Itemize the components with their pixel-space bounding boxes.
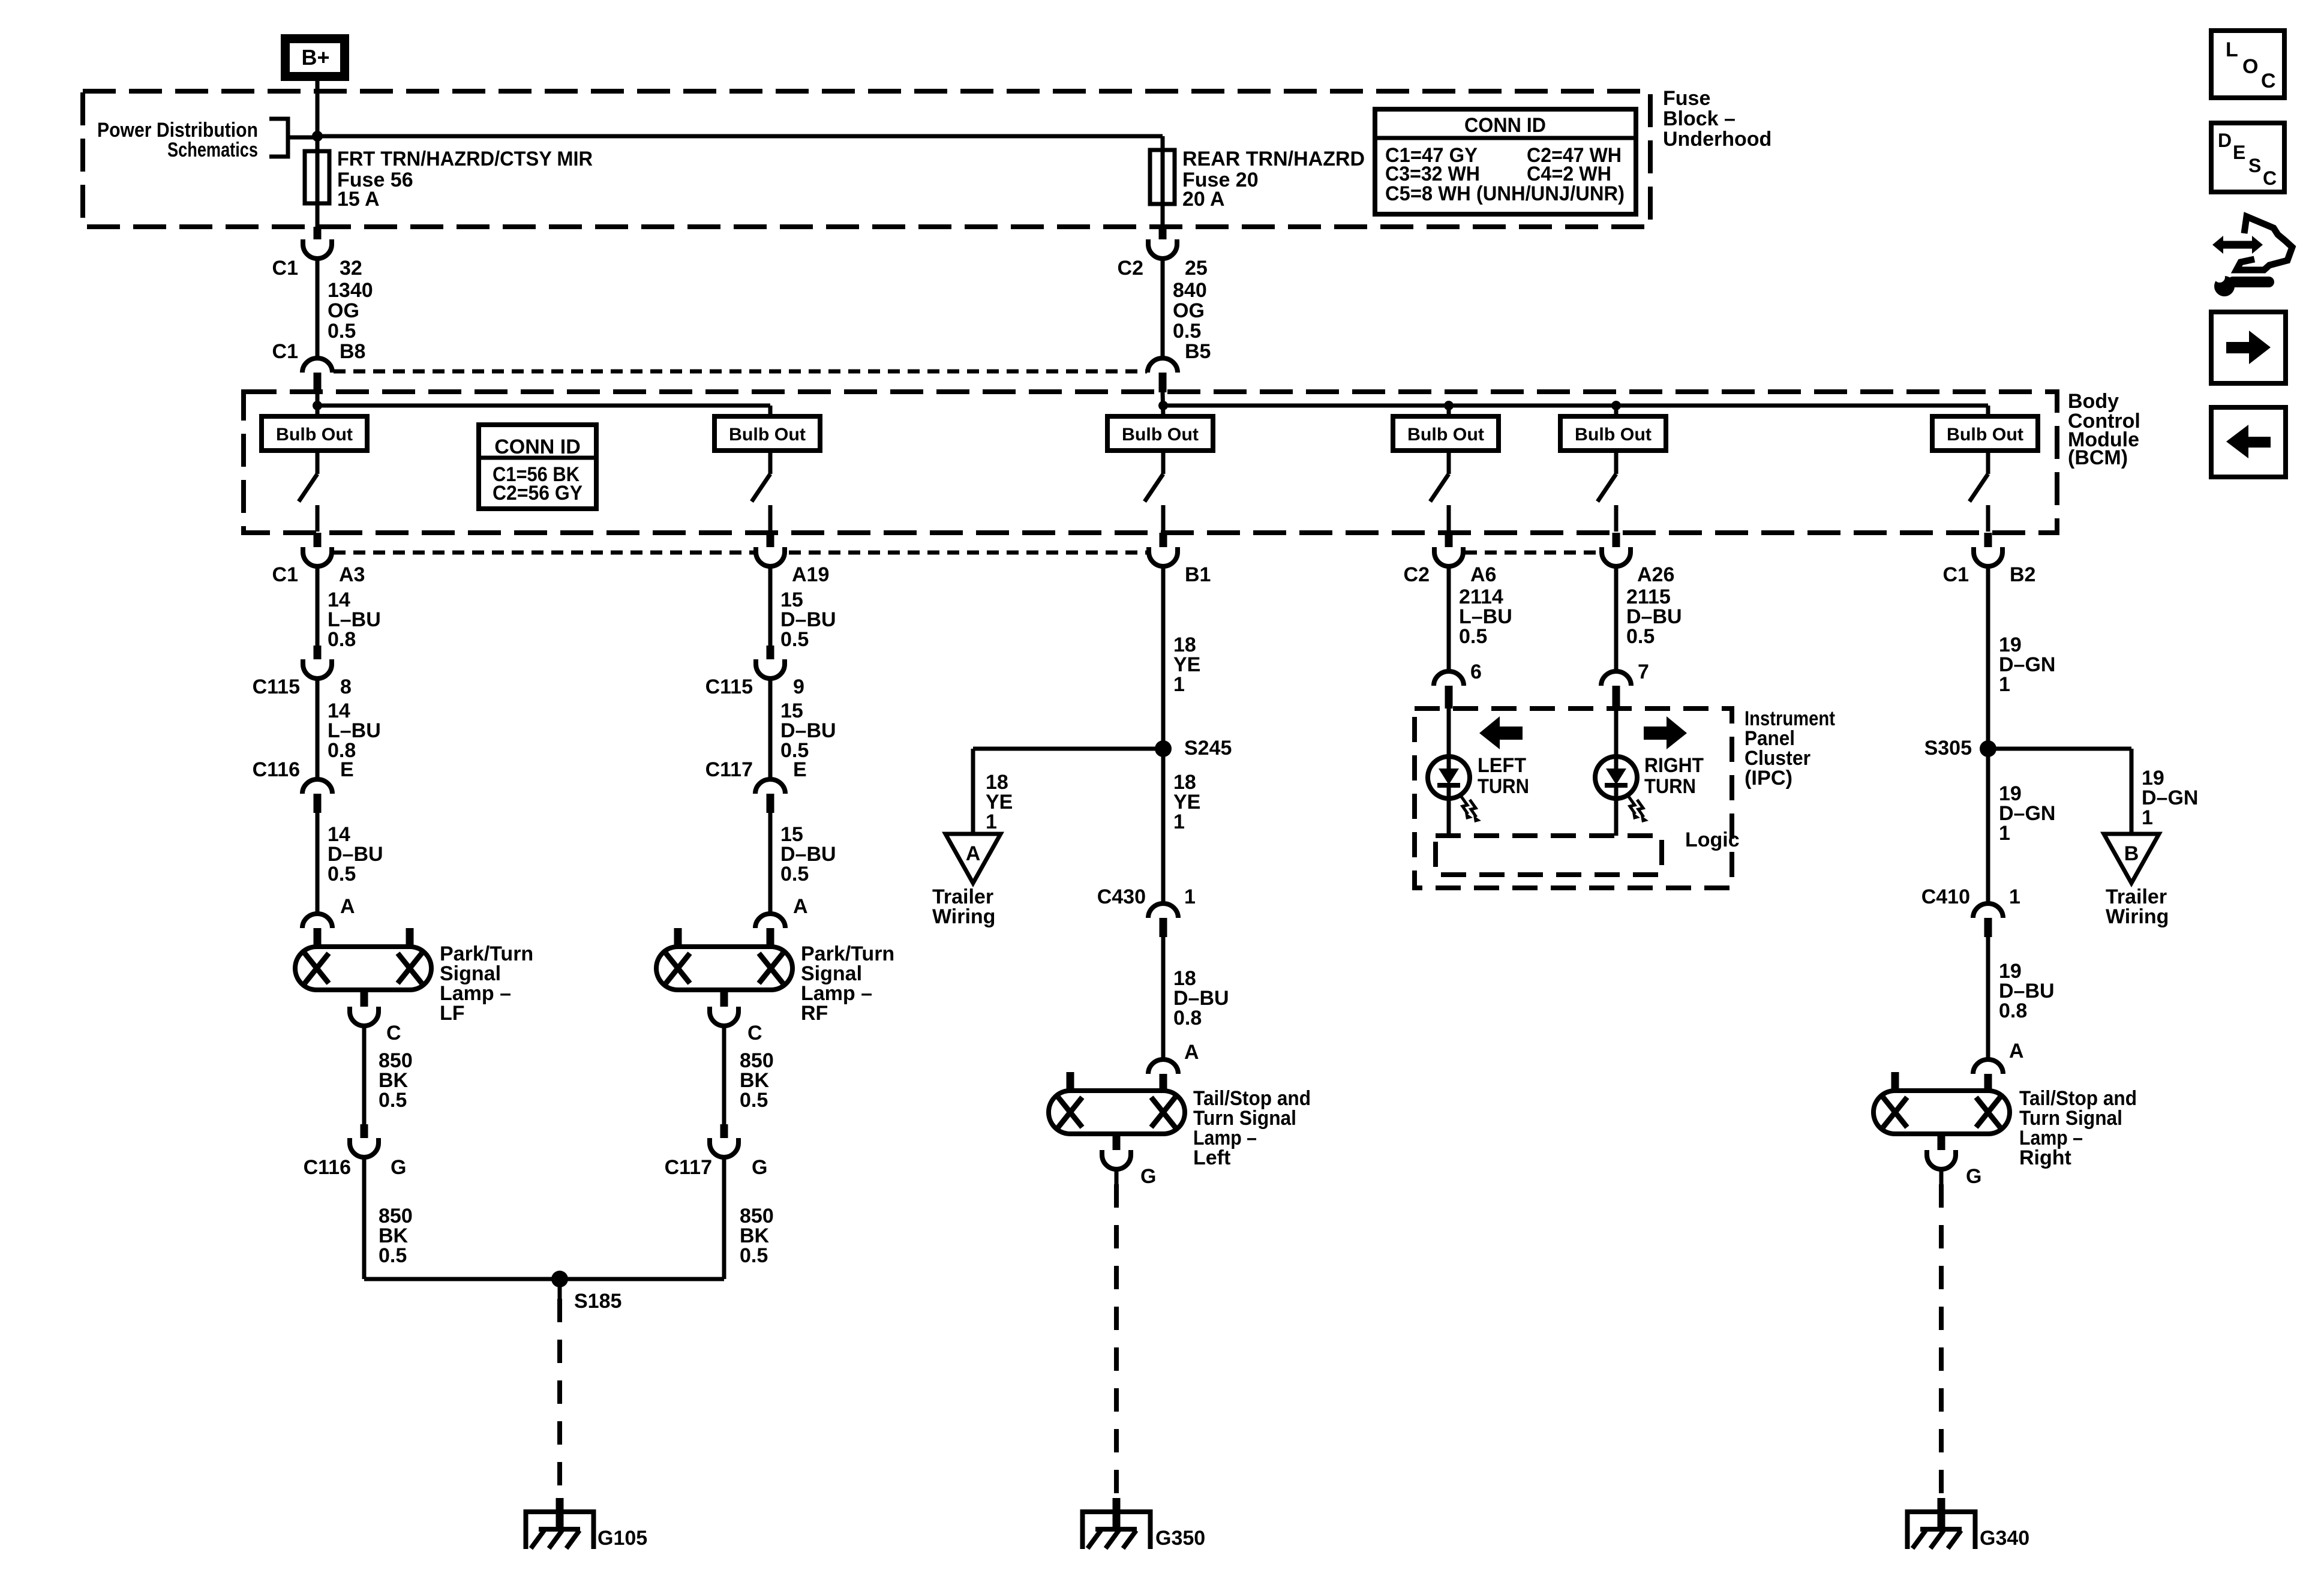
lamp: Tail/Stop and Turn Signal Lamp - Right xyxy=(1873,1091,2010,1134)
svg-text:O: O xyxy=(2242,55,2258,78)
wire: BCM bus segment right xyxy=(1163,392,1163,416)
switch: bulb out switch col5 xyxy=(1614,451,1619,474)
wire: RF lamp to C117-G xyxy=(722,1026,726,1124)
svg-text:C: C xyxy=(2263,167,2277,189)
svg-text:Schematics: Schematics xyxy=(167,139,258,161)
svg-text:E: E xyxy=(340,758,354,781)
svg-text:C1: C1 xyxy=(1943,563,1969,586)
svg-text:G: G xyxy=(1966,1165,1981,1188)
dotted connector face line (BCM outputs C2) xyxy=(1465,551,1600,555)
svg-text:B: B xyxy=(2124,842,2139,865)
svg-text:9: 9 xyxy=(793,676,804,698)
connector IPC pin 6 xyxy=(1434,671,1464,686)
icon: next-page right arrow box xyxy=(2211,312,2286,383)
node: splice S305 xyxy=(1980,740,1996,757)
stub: BCM boundary col1 xyxy=(314,533,322,552)
svg-text:(IPC): (IPC) xyxy=(1744,767,1792,789)
BCM Bulb Out driver box col2 xyxy=(714,416,820,451)
wire: B+ bus to Fuse 20 xyxy=(317,134,1163,139)
svg-text:A: A xyxy=(1184,1041,1199,1064)
svg-text:1: 1 xyxy=(1999,673,2010,696)
wire: tail left to G350 (dashed) xyxy=(1115,1169,1119,1184)
node: bus junction col1 xyxy=(313,401,322,410)
connector C116 pin G xyxy=(361,1124,368,1143)
svg-text:Wiring: Wiring xyxy=(2106,905,2169,928)
svg-text:B1: B1 xyxy=(1185,563,1211,586)
svg-text:Bulb Out: Bulb Out xyxy=(276,425,353,445)
connector BCM C1 pin B8 xyxy=(302,358,332,373)
svg-text:G: G xyxy=(752,1156,767,1179)
svg-text:C410: C410 xyxy=(1921,885,1970,908)
power feed node B+ box xyxy=(286,39,345,77)
connector BCM output col5 xyxy=(1602,547,1631,566)
svg-text:LEFT: LEFT xyxy=(1478,754,1526,777)
svg-text:0.5: 0.5 xyxy=(379,1089,407,1112)
svg-text:1: 1 xyxy=(2142,806,2153,829)
lamp: Tail/Stop and Turn Signal Lamp - Left xyxy=(1049,1091,1185,1134)
node: splice S185 xyxy=(551,1271,568,1287)
svg-text:CONN ID: CONN ID xyxy=(1464,114,1546,137)
connector C115 pin 8 xyxy=(314,646,322,664)
wire: circuit 1340 OG 0.5 (left) xyxy=(316,259,320,358)
switch: bulb out switch col3 xyxy=(1161,451,1166,474)
svg-text:1: 1 xyxy=(1173,673,1185,696)
svg-text:0.8: 0.8 xyxy=(1999,999,2027,1022)
svg-text:7: 7 xyxy=(1638,661,1649,683)
stub: BCM boundary col4 xyxy=(1445,533,1453,552)
svg-text:Bulb Out: Bulb Out xyxy=(1575,425,1652,445)
switch: bulb out switch col4 xyxy=(1447,451,1451,474)
fuse F56 FRT TRN/HAZRD/CTSY MIR 15A xyxy=(305,151,329,203)
off-page connector A (trailer wiring) xyxy=(945,834,1001,883)
svg-text:C117: C117 xyxy=(705,758,753,781)
svg-text:0.5: 0.5 xyxy=(1626,625,1655,648)
body control module (BCM) dashed box xyxy=(244,392,2057,533)
svg-text:OG: OG xyxy=(1173,299,1205,322)
svg-text:G340: G340 xyxy=(1980,1527,2029,1550)
svg-text:OG: OG xyxy=(328,299,359,322)
connector tail left pin G xyxy=(1113,1134,1121,1153)
svg-text:C116: C116 xyxy=(304,1156,351,1179)
svg-text:C1: C1 xyxy=(272,563,298,586)
svg-text:A: A xyxy=(793,895,808,918)
ground G105 xyxy=(526,1512,594,1549)
svg-text:0.5: 0.5 xyxy=(1459,625,1487,648)
connector C2 pin 25 (fuse block) xyxy=(1148,239,1177,259)
BCM Bulb Out driver box col6 xyxy=(1932,416,2038,451)
wire: C410 to tail lamp right xyxy=(1986,937,1990,1059)
IPC logic dashed box xyxy=(1436,836,1662,875)
wire: S185 to G105 (dashed) xyxy=(558,1279,562,1299)
svg-text:1: 1 xyxy=(986,810,997,833)
dotted connector face line (BCM outputs C1) xyxy=(334,551,1147,555)
svg-text:0.5: 0.5 xyxy=(740,1244,768,1267)
svg-text:0.5: 0.5 xyxy=(740,1089,768,1112)
stub: fuse block boundary col3 xyxy=(1159,227,1167,244)
svg-text:E: E xyxy=(2233,142,2245,163)
connector BCM output col3 xyxy=(1149,547,1178,566)
svg-text:0.5: 0.5 xyxy=(780,863,809,885)
wire: col2 C115 to C117 xyxy=(768,679,773,779)
connector BCM output col6 xyxy=(1974,547,2002,566)
connector tail lamp left pin A xyxy=(1148,1059,1178,1074)
connector BCM output col4 xyxy=(1434,547,1463,566)
svg-text:A: A xyxy=(340,895,355,918)
wire: col1 C115 to C116 xyxy=(316,679,320,779)
svg-text:B+: B+ xyxy=(301,45,329,70)
svg-text:Block –: Block – xyxy=(1663,107,1736,130)
node: B+ bus junction xyxy=(312,131,323,142)
svg-text:C1: C1 xyxy=(272,257,298,280)
BCM Bulb Out driver box col1 xyxy=(262,416,367,451)
svg-text:Bulb Out: Bulb Out xyxy=(1407,425,1484,445)
svg-text:C2: C2 xyxy=(1404,563,1430,586)
connector BCM C2 pin B5 xyxy=(1148,358,1178,373)
switch: bulb out switch col6 xyxy=(1986,451,1990,474)
svg-text:FRT TRN/HAZRD/CTSY MIR: FRT TRN/HAZRD/CTSY MIR xyxy=(337,148,593,170)
stub: fuse block boundary col1 xyxy=(314,227,322,244)
connector tail lamp right pin A xyxy=(1973,1059,2003,1074)
svg-text:RIGHT: RIGHT xyxy=(1644,754,1704,777)
svg-text:S185: S185 xyxy=(574,1290,621,1313)
svg-text:C430: C430 xyxy=(1097,885,1146,908)
wire: S305 branch to trailer B xyxy=(1988,747,2131,751)
svg-text:A: A xyxy=(966,842,981,865)
fuse F20 REAR TRN/HAZRD 20A xyxy=(1150,150,1175,204)
svg-text:G105: G105 xyxy=(597,1527,647,1550)
connector IPC pin 7 xyxy=(1601,671,1631,686)
connector C117 pin G xyxy=(720,1124,728,1143)
svg-text:1: 1 xyxy=(1173,810,1185,833)
svg-text:Left: Left xyxy=(1193,1146,1230,1169)
svg-text:C115: C115 xyxy=(253,676,300,698)
svg-text:B2: B2 xyxy=(2010,563,2035,586)
stub: BCM boundary col6 xyxy=(1984,533,1992,552)
svg-text:C2=56 GY: C2=56 GY xyxy=(493,482,582,505)
svg-text:Logic: Logic xyxy=(1685,828,1740,851)
svg-text:C: C xyxy=(2261,70,2276,92)
lamp: Park/Turn Signal Lamp - RF xyxy=(656,947,792,990)
wire: BCM bus segment left xyxy=(316,392,320,416)
svg-text:1: 1 xyxy=(1184,885,1196,908)
ground G350 xyxy=(1083,1512,1151,1549)
svg-text:S: S xyxy=(2248,155,2261,176)
connector C430 pin 1 xyxy=(1148,903,1178,918)
indicator LED: LEFT TURN xyxy=(1447,709,1451,836)
fuse block - underhood dashed box xyxy=(83,91,1650,227)
stub: BCM boundary col2 xyxy=(767,533,774,552)
svg-text:25: 25 xyxy=(1185,257,1208,280)
svg-text:A19: A19 xyxy=(792,563,829,586)
node: splice S245 xyxy=(1155,740,1172,757)
switch: bulb out switch col1 xyxy=(316,451,320,474)
svg-text:Bulb Out: Bulb Out xyxy=(1122,425,1199,445)
svg-text:1: 1 xyxy=(2009,885,2020,908)
wire: col1 A3 to C115 xyxy=(316,566,320,646)
svg-text:A3: A3 xyxy=(339,563,365,586)
dotted connector face line (BCM inputs) xyxy=(334,370,1147,374)
icon: left turn arrow xyxy=(1479,716,1523,749)
off-page connector B (trailer wiring) xyxy=(2104,834,2159,883)
wire: C117-G to S185 xyxy=(722,1157,726,1279)
wire: C116-G to S185 xyxy=(362,1157,367,1279)
svg-text:0.5: 0.5 xyxy=(328,863,356,885)
svg-text:L: L xyxy=(2226,38,2238,61)
svg-text:C: C xyxy=(747,1022,762,1044)
connector RF lamp pin A xyxy=(755,914,785,928)
svg-text:B5: B5 xyxy=(1185,340,1211,363)
connector BCM output col2 xyxy=(756,547,785,566)
svg-text:840: 840 xyxy=(1173,279,1207,302)
node: bus junction col4 xyxy=(1444,401,1454,410)
connector C117 pin E xyxy=(755,779,785,794)
svg-text:D: D xyxy=(2218,130,2232,151)
wire: tail right to G340 (dashed) xyxy=(1939,1169,1944,1184)
icon: right turn arrow xyxy=(1644,716,1687,749)
svg-text:C116: C116 xyxy=(253,758,300,781)
svg-text:0.5: 0.5 xyxy=(780,628,809,651)
svg-text:8: 8 xyxy=(340,676,352,698)
svg-text:C5=8 WH (UNH/UNJ/UNR): C5=8 WH (UNH/UNJ/UNR) xyxy=(1385,182,1625,205)
icon: LOC box xyxy=(2211,31,2284,98)
svg-text:(BCM): (BCM) xyxy=(2068,446,2128,469)
wire: col2 A19 to C115 xyxy=(768,566,773,646)
ground G340 xyxy=(1908,1512,1975,1549)
svg-text:A: A xyxy=(2009,1040,2024,1062)
node: bus junction col3 xyxy=(1158,401,1168,410)
connector BCM output col1 xyxy=(303,547,332,566)
svg-text:S245: S245 xyxy=(1184,737,1232,760)
wire: C430 to tail lamp left xyxy=(1161,937,1166,1059)
wire B+ down to fuse block xyxy=(316,81,320,227)
svg-text:C115: C115 xyxy=(705,676,753,698)
indicator LED: RIGHT TURN xyxy=(1614,709,1619,836)
svg-text:C: C xyxy=(386,1022,401,1044)
svg-text:TURN: TURN xyxy=(1644,775,1696,798)
svg-text:B8: B8 xyxy=(340,340,365,363)
connector C1 pin 32 (fuse block) xyxy=(303,239,332,259)
wire: col4 A6 to IPC pin 6 xyxy=(1447,566,1451,671)
svg-text:Fuse: Fuse xyxy=(1663,87,1710,110)
BCM Bulb Out driver box col5 xyxy=(1560,416,1666,451)
node: bus junction col5 xyxy=(1611,401,1621,410)
svg-text:Wiring: Wiring xyxy=(932,905,995,928)
svg-text:RF: RF xyxy=(801,1002,828,1025)
svg-text:1: 1 xyxy=(1999,822,2010,845)
stub: BCM boundary col5 xyxy=(1613,533,1620,552)
svg-text:LF: LF xyxy=(440,1002,465,1025)
connector C115 pin 9 xyxy=(767,646,774,664)
instrument panel cluster (IPC) dashed box xyxy=(1415,709,1732,888)
svg-text:Right: Right xyxy=(2019,1146,2071,1169)
svg-text:C117: C117 xyxy=(665,1156,712,1179)
connector LF lamp pin A xyxy=(302,914,332,928)
svg-text:A6: A6 xyxy=(1470,563,1496,586)
svg-text:0.5: 0.5 xyxy=(1173,320,1201,343)
wire: circuit 840 OG 0.5 (right) xyxy=(1161,259,1165,358)
svg-text:S305: S305 xyxy=(1924,737,1972,760)
svg-text:C1: C1 xyxy=(272,340,298,363)
wire: S245 branch to trailer A xyxy=(973,747,1163,751)
svg-text:6: 6 xyxy=(1470,661,1482,683)
svg-text:0.5: 0.5 xyxy=(328,320,356,343)
connector tail right pin G xyxy=(1938,1134,1945,1153)
stub: BCM boundary col3 xyxy=(1160,533,1167,552)
svg-text:1340: 1340 xyxy=(328,279,373,302)
connector C116 pin E xyxy=(302,779,332,794)
svg-text:32: 32 xyxy=(340,257,362,280)
icon: schematic navigation (wrench + arrows) xyxy=(2212,236,2263,254)
wire: col2 C117 to lamp xyxy=(768,813,773,914)
CONN ID table (fuse block) xyxy=(1375,109,1636,214)
switch: bulb out switch col2 xyxy=(768,451,773,474)
svg-text:A26: A26 xyxy=(1637,563,1674,586)
svg-text:Underhood: Underhood xyxy=(1663,128,1771,151)
svg-text:TURN: TURN xyxy=(1478,775,1529,798)
svg-text:0.5: 0.5 xyxy=(379,1244,407,1267)
svg-text:E: E xyxy=(793,758,807,781)
svg-text:15 A: 15 A xyxy=(337,188,380,211)
svg-text:0.8: 0.8 xyxy=(328,628,356,651)
svg-text:Bulb Out: Bulb Out xyxy=(729,425,806,445)
wire: ground join to S185 xyxy=(364,1277,724,1281)
svg-text:0.8: 0.8 xyxy=(1173,1007,1202,1029)
BCM Bulb Out driver box col4 xyxy=(1393,416,1499,451)
svg-text:C2: C2 xyxy=(1118,257,1143,280)
svg-text:REAR TRN/HAZRD: REAR TRN/HAZRD xyxy=(1182,148,1365,170)
wire: col1 C116 to lamp xyxy=(316,813,320,914)
wire: col6 B2 down xyxy=(1986,566,1990,903)
svg-text:G350: G350 xyxy=(1155,1527,1205,1550)
svg-text:G: G xyxy=(391,1156,406,1179)
svg-text:CONN ID: CONN ID xyxy=(494,436,581,458)
icon: prev-page left arrow box xyxy=(2211,407,2286,477)
svg-text:G: G xyxy=(1140,1165,1156,1188)
svg-text:20 A: 20 A xyxy=(1182,188,1225,211)
BCM Bulb Out driver box col3 xyxy=(1107,416,1213,451)
CONN ID table (BCM) xyxy=(479,425,596,509)
connector RF lamp pin C xyxy=(720,990,728,1010)
icon: DESC box xyxy=(2211,123,2284,192)
wire: col5 A26 to IPC pin 7 xyxy=(1614,566,1619,671)
wire: LF lamp to C116-G xyxy=(362,1026,367,1124)
connector C410 pin 1 xyxy=(1973,903,2003,918)
svg-text:Bulb Out: Bulb Out xyxy=(1947,425,2023,445)
wire: col3 B1 down xyxy=(1161,566,1166,903)
Power Distribution Schematics reference bracket xyxy=(269,119,288,157)
lamp: Park/Turn Signal Lamp - LF xyxy=(295,947,431,990)
connector LF lamp pin C xyxy=(361,990,368,1010)
